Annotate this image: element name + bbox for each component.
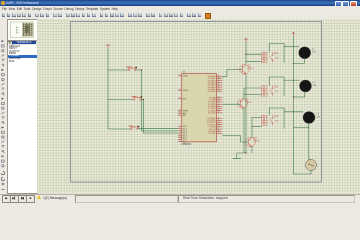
relay RL2 contact xyxy=(270,85,273,96)
svg-text:7: 7 xyxy=(179,138,180,140)
svg-text:RL2: RL2 xyxy=(274,86,279,89)
pin numbers left xyxy=(178,75,180,143)
button B3 xyxy=(130,126,139,130)
junction dot xyxy=(142,99,143,100)
parts list xyxy=(7,45,38,194)
wire to relay RL1 coil xyxy=(246,54,262,61)
wire RL1 contact loop xyxy=(269,44,284,63)
svg-text:14: 14 xyxy=(217,126,219,128)
wire IC to Q1 base xyxy=(222,70,242,77)
relay RL3 contact xyxy=(270,115,273,126)
svg-text:39: 39 xyxy=(217,75,219,77)
svg-text:25: 25 xyxy=(217,105,219,107)
svg-text:16: 16 xyxy=(217,130,219,132)
wire Q2 collector to RL2 xyxy=(244,88,262,99)
power terminal VCC3 (right rail) xyxy=(291,32,295,36)
svg-text:RL3: RL3 xyxy=(274,115,279,118)
wire Q1 collector/power xyxy=(245,42,247,64)
wire lamp L1 to rail xyxy=(293,58,304,64)
wire to button B3 xyxy=(108,128,130,130)
junction dot xyxy=(140,69,141,70)
power terminal VCC1 (left rail) xyxy=(106,44,110,48)
svg-text:11: 11 xyxy=(217,119,219,121)
svg-text:29: 29 xyxy=(178,110,180,112)
overview panel xyxy=(7,19,38,41)
wire IC to Q3 base xyxy=(222,136,248,143)
relay RL1 coil xyxy=(261,52,267,62)
svg-text:10: 10 xyxy=(217,117,219,119)
svg-text:RL1: RL1 xyxy=(274,52,279,55)
svg-text:8: 8 xyxy=(179,140,180,142)
wire motor to rail xyxy=(293,171,311,175)
svg-text:4: 4 xyxy=(179,132,180,134)
svg-text:15: 15 xyxy=(217,128,219,130)
wire to button B1 xyxy=(108,69,128,71)
svg-text:P1.7: P1.7 xyxy=(183,141,187,143)
svg-text:32: 32 xyxy=(217,90,219,92)
svg-text:36: 36 xyxy=(217,81,219,83)
object selector header xyxy=(7,41,36,45)
svg-text:13: 13 xyxy=(217,123,219,125)
button B1 xyxy=(127,67,136,71)
lamp L1 xyxy=(298,47,310,59)
status bar xyxy=(0,194,360,204)
svg-text:2: 2 xyxy=(179,127,180,129)
svg-text:23: 23 xyxy=(217,101,219,103)
junction dot xyxy=(245,152,246,153)
wire B3 to IC P1.2 xyxy=(138,128,178,130)
svg-text:28: 28 xyxy=(217,112,219,114)
wire IC to Q2 base xyxy=(222,103,240,105)
svg-text:24: 24 xyxy=(217,103,219,105)
wire lamp L3 to motor xyxy=(293,123,310,160)
junction dot xyxy=(245,54,246,55)
svg-text:P3.7/RD: P3.7/RD xyxy=(208,133,216,135)
wire RL2 contact loop xyxy=(269,77,284,96)
svg-text:5: 5 xyxy=(179,134,180,136)
svg-text:38: 38 xyxy=(217,77,219,79)
svg-text:P2.7/A15: P2.7/A15 xyxy=(208,112,216,115)
wire Q1 emitter to ground rail xyxy=(245,74,247,153)
wire B1 to IC P1.3 xyxy=(136,70,178,131)
ground terminal xyxy=(232,158,241,160)
wire to lamp L2 xyxy=(284,79,299,81)
transistor Q3 xyxy=(245,137,255,147)
button B2 xyxy=(133,96,142,100)
svg-text:34: 34 xyxy=(217,86,219,88)
svg-text:30: 30 xyxy=(178,112,180,114)
svg-text:P0.7/AD7: P0.7/AD7 xyxy=(207,90,215,93)
left mode toolbar xyxy=(0,19,8,194)
svg-text:33: 33 xyxy=(217,88,219,90)
title bar xyxy=(0,0,360,6)
svg-text:37: 37 xyxy=(217,79,219,81)
svg-text:31: 31 xyxy=(178,114,180,116)
svg-text:BC547: BC547 xyxy=(245,102,252,104)
svg-text:18: 18 xyxy=(178,89,180,91)
wire RL3 contact loop xyxy=(269,108,284,129)
svg-text:XTAL2: XTAL2 xyxy=(183,89,188,92)
lamp L3 xyxy=(303,112,315,124)
wire Q3 emitter xyxy=(251,146,253,153)
svg-text:26: 26 xyxy=(217,107,219,109)
wire to button B2 xyxy=(108,99,133,101)
svg-text:12: 12 xyxy=(217,121,219,123)
junction dot xyxy=(292,96,293,97)
wire Q2 emitter xyxy=(243,108,245,153)
IC U1 right pins xyxy=(216,76,222,133)
power terminal VCC2 (Q1 collector) xyxy=(244,38,248,42)
svg-text:9: 9 xyxy=(179,97,180,99)
toolbar xyxy=(0,12,360,20)
svg-text:27: 27 xyxy=(217,109,219,111)
svg-text:3: 3 xyxy=(179,129,180,131)
IC U1 xyxy=(181,74,216,142)
sheet border xyxy=(70,22,321,183)
IC U1 pin name texts xyxy=(183,75,189,144)
svg-text:17: 17 xyxy=(217,132,219,134)
menu bar xyxy=(0,6,360,12)
IC U1 left pins xyxy=(178,76,182,142)
relay RL3 coil xyxy=(261,115,267,125)
wire common emitter to ground xyxy=(236,153,245,159)
schematic canvas xyxy=(37,19,360,194)
wire left rail vertical xyxy=(107,48,109,129)
svg-text:21: 21 xyxy=(217,96,219,98)
wire to lamp L3 xyxy=(284,111,303,113)
wire lamp L2 to rail xyxy=(293,91,304,97)
svg-text:22: 22 xyxy=(217,99,219,101)
svg-text:6: 6 xyxy=(179,136,180,138)
svg-text:19: 19 xyxy=(178,75,180,77)
pin numbers right xyxy=(217,75,219,134)
wire Q3 collector to RL3 xyxy=(252,117,262,137)
transistor Q1 xyxy=(239,65,249,75)
wire B2 to IC P1.4 xyxy=(141,100,178,134)
transistor Q2 xyxy=(237,99,247,109)
wire right supply rail xyxy=(292,36,294,174)
svg-text:1: 1 xyxy=(179,125,180,127)
svg-text:XTAL1: XTAL1 xyxy=(183,75,188,78)
svg-text:35: 35 xyxy=(217,84,219,86)
junction dot xyxy=(292,63,293,64)
lamp L2 xyxy=(299,80,311,92)
svg-text:BC547: BC547 xyxy=(247,68,254,70)
wire to lamp L1 xyxy=(284,46,299,48)
motor M1 xyxy=(305,160,316,171)
svg-text:BC547: BC547 xyxy=(253,141,260,143)
relay RL1 contact xyxy=(270,52,273,63)
relay RL2 coil xyxy=(261,86,267,96)
